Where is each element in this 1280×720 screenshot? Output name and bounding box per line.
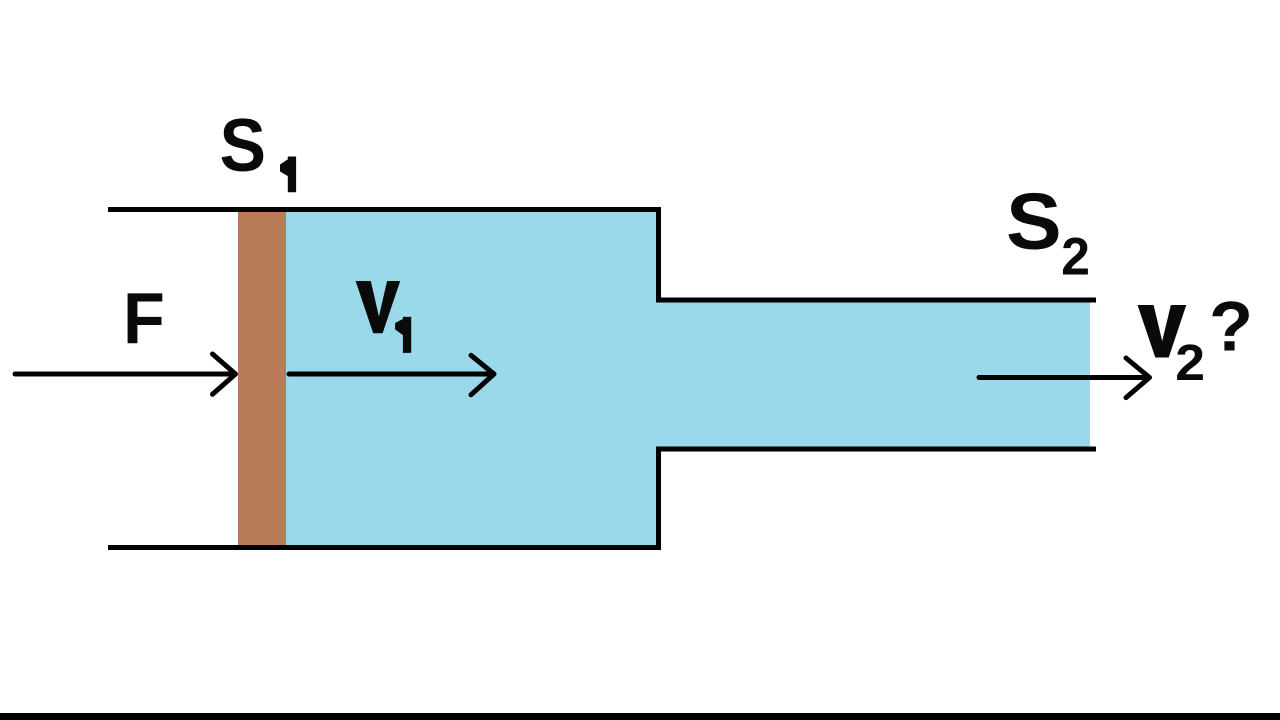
bottom black bar bbox=[0, 713, 1280, 720]
label S1 bbox=[220, 104, 267, 188]
piston (brown) bbox=[238, 211, 286, 546]
label V2 ? bbox=[1138, 305, 1187, 358]
svg-text:F: F bbox=[123, 278, 165, 359]
velocity arrow V1 shaft bbox=[289, 372, 492, 377]
label S2 bbox=[1006, 177, 1062, 266]
pipe wall: narrow bottom line bbox=[656, 447, 1096, 452]
label V1 bbox=[356, 281, 401, 333]
velocity arrow V1 head bbox=[471, 355, 494, 395]
velocity arrow V2 shaft bbox=[979, 375, 1148, 380]
pipe wall: wide top line bbox=[108, 207, 661, 212]
pipe wall: wide bottom line bbox=[108, 545, 661, 550]
label F bbox=[123, 278, 165, 359]
svg-text:2: 2 bbox=[1175, 335, 1205, 391]
pipe wall: upper step vertical bbox=[656, 209, 661, 300]
svg-text:2: 2 bbox=[1061, 228, 1090, 286]
force arrow F shaft bbox=[15, 372, 233, 377]
svg-text:S: S bbox=[1006, 177, 1062, 266]
pipe wall: lower step vertical bbox=[656, 449, 661, 548]
force arrow F head bbox=[213, 354, 236, 394]
pipe wall: narrow top line bbox=[656, 298, 1096, 303]
velocity arrow V2 head bbox=[1126, 358, 1150, 398]
svg-text:?: ? bbox=[1209, 287, 1253, 366]
svg-text:S: S bbox=[220, 104, 267, 188]
fluid (light blue) narrow pipe bbox=[656, 301, 1090, 448]
fluid (light blue) wide chamber bbox=[284, 211, 658, 547]
